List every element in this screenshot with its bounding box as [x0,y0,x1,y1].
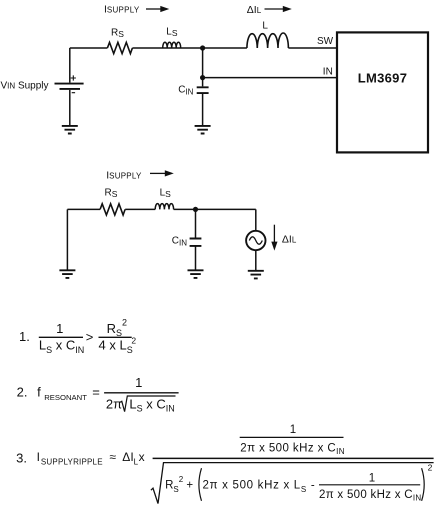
svg-text:RESONANT: RESONANT [44,393,87,402]
svg-text:4 x LS2: 4 x LS2 [99,335,137,354]
svg-text:VIN Supply: VIN Supply [1,80,49,91]
svg-text:2π x 500 kHz x CIN: 2π x 500 kHz x CIN [240,442,345,456]
svg-text:>: > [86,329,94,344]
svg-text:L: L [262,20,268,31]
svg-text:RS2: RS2 [107,318,127,339]
svg-text:LS x CIN: LS x CIN [129,396,174,413]
svg-text:2π x 500 kHz x CIN: 2π x 500 kHz x CIN [319,489,422,503]
svg-text:LS: LS [166,27,178,39]
svg-text:ΔIL: ΔIL [282,234,297,246]
svg-text:CIN: CIN [172,236,187,248]
svg-text:LS x CIN: LS x CIN [39,338,84,355]
svg-text:2.: 2. [17,385,28,400]
svg-text:≈: ≈ [109,450,116,464]
svg-text:LS: LS [160,188,172,200]
svg-text:2π: 2π [106,396,122,411]
svg-text:SUPPLYRIPPLE: SUPPLYRIPPLE [41,457,103,466]
svg-text:IN: IN [323,67,333,78]
svg-text:CIN: CIN [178,85,193,97]
svg-text:1: 1 [135,375,142,390]
svg-text:1: 1 [369,472,375,484]
svg-text:SW: SW [317,36,334,47]
svg-text:ΔIL: ΔIL [247,4,262,16]
svg-text:I: I [37,450,40,464]
svg-text:ΔIL: ΔIL [122,450,138,466]
svg-text:2: 2 [428,463,433,473]
svg-text:1.: 1. [19,329,30,344]
svg-text:ISUPPLY: ISUPPLY [104,4,140,16]
svg-text:RS2 +: RS2 + [165,475,193,494]
svg-text:3.: 3. [16,451,27,466]
svg-text:1: 1 [56,321,63,336]
svg-text:RS: RS [111,27,124,39]
svg-text:2π x 500 kHz x LS -: 2π x 500 kHz x LS - [203,480,316,494]
svg-text:ISUPPLY: ISUPPLY [106,169,142,181]
svg-text:=: = [92,385,100,400]
svg-text:LM3697: LM3697 [358,71,408,86]
svg-text:x: x [139,450,145,464]
svg-text:f: f [37,385,41,400]
svg-text:1: 1 [290,424,296,436]
svg-text:RS: RS [105,188,118,200]
